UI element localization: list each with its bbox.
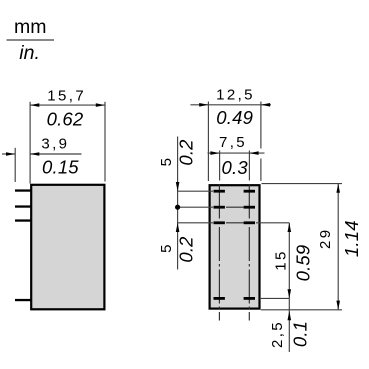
left view pin 1	[15, 189, 31, 191]
centerline column 2	[248, 185, 250, 321]
pin mark row1 col1	[214, 190, 225, 193]
arrow 2,5 bottom	[288, 311, 292, 320]
svg-text:0.59: 0.59	[293, 245, 314, 282]
leader body bottom right	[261, 309, 342, 311]
dimension line 5-5 chain	[177, 137, 179, 270]
leader row 1	[178, 190, 213, 192]
leader row 4 right	[261, 297, 290, 299]
pin mark row2 col1	[214, 206, 225, 209]
svg-text:0.2: 0.2	[175, 236, 196, 263]
leader row 3	[178, 222, 213, 224]
junction dot	[175, 205, 180, 210]
leader body top right	[262, 183, 343, 185]
left view pin 3	[15, 219, 31, 221]
extension line 7,5 right	[248, 151, 250, 181]
svg-text:7,5: 7,5	[219, 134, 247, 151]
extension line pin tip	[14, 148, 16, 182]
arrow 15,7 left	[30, 103, 39, 107]
extension line 12,5 left	[207, 102, 209, 182]
arrow 12,5 left	[199, 103, 208, 107]
svg-text:15: 15	[272, 249, 289, 271]
svg-text:0.1: 0.1	[290, 321, 311, 347]
svg-text:15,7: 15,7	[47, 88, 86, 105]
arrow 15 bottom / 2,5 top	[288, 289, 292, 298]
pin mark row4 col2	[244, 297, 255, 300]
left view body	[31, 185, 104, 309]
pin mark row1 col2	[244, 190, 255, 193]
svg-text:12,5: 12,5	[216, 86, 255, 103]
pin mark row2 col2	[244, 206, 255, 209]
centerline column 1	[218, 185, 220, 321]
left view pin 4	[15, 299, 31, 301]
svg-text:in.: in.	[19, 42, 40, 64]
dimension line 12,5	[190, 104, 271, 106]
arrow 5 bottom	[176, 223, 180, 232]
legend fraction bar	[7, 39, 55, 41]
arrow 12,5 right	[261, 103, 270, 107]
extension line left body left edge	[29, 102, 31, 184]
arrow 15,7 right	[96, 103, 105, 107]
svg-text:0.49: 0.49	[216, 107, 253, 128]
svg-text:0.2: 0.2	[175, 139, 196, 166]
svg-text:0.62: 0.62	[47, 109, 84, 130]
svg-text:5: 5	[158, 242, 175, 253]
arrow 29 bottom	[336, 301, 340, 310]
svg-text:mm: mm	[14, 16, 47, 38]
pin mark row3 col1	[214, 221, 225, 224]
dimension line 15,7	[30, 104, 105, 106]
leader row 2	[178, 206, 213, 208]
extension line 12,5 right lower	[260, 159, 262, 182]
arrow 5 top	[176, 182, 180, 191]
arrow 3,9 left	[6, 152, 15, 156]
svg-text:5: 5	[158, 156, 175, 167]
right view body	[210, 185, 260, 308]
dimension line 3,9 left tail	[2, 153, 15, 155]
svg-text:0.15: 0.15	[42, 157, 79, 178]
extension line left body right edge	[104, 102, 106, 182]
svg-text:0.3: 0.3	[222, 157, 249, 178]
arrow 3,9 right	[30, 152, 39, 156]
svg-text:29: 29	[317, 228, 334, 250]
arrow 7,5 left	[210, 151, 219, 155]
centerline row 3	[226, 222, 244, 224]
extension line 7,5 left	[219, 151, 221, 181]
extension line 12,5 right upper	[260, 102, 262, 149]
dimension line 15 and 2,5 shared	[288, 223, 290, 352]
arrow 29 top	[336, 184, 340, 193]
svg-text:2,5: 2,5	[269, 320, 286, 348]
dimension line 7,5	[208, 152, 265, 154]
dimension line 3,9 right part	[30, 153, 81, 155]
pin mark row3 col2	[244, 221, 255, 224]
arrow 15 top	[288, 223, 292, 232]
dimension line 29	[337, 184, 339, 310]
svg-text:1.14: 1.14	[341, 220, 362, 257]
svg-text:3,9: 3,9	[41, 135, 69, 152]
arrow 7,5 right	[249, 151, 258, 155]
left view pin 2	[15, 205, 31, 207]
centerline row 2	[226, 206, 244, 208]
pin mark row4 col1	[214, 297, 225, 300]
leader row 3 right	[256, 222, 289, 224]
